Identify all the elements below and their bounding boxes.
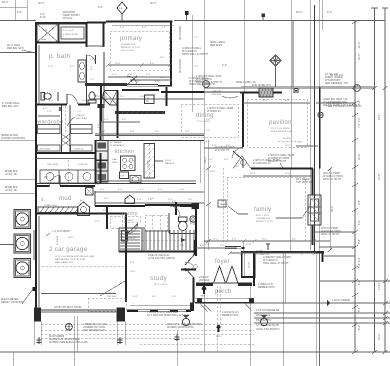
svg-text:26'-2": 26'-2" — [331, 206, 334, 212]
svg-text:8'-11": 8'-11" — [40, 16, 46, 19]
svg-text:CLOSET LOCATION): CLOSET LOCATION) — [1, 137, 25, 140]
svg-text:12 X 4000 PSI TEMP WALL 12 NO: 12 X 4000 PSI TEMP WALL 12 NO 40 — [147, 314, 190, 317]
svg-text:10'-3": 10'-3" — [358, 42, 361, 48]
svg-text:21'-8": 21'-8" — [378, 174, 381, 180]
svg-text:18'-9": 18'-9" — [262, 100, 268, 102]
svg-text:30'-0": 30'-0" — [150, 2, 156, 5]
room label pdr — [190, 221, 198, 226]
primary top wall inner line — [112, 24, 174, 26]
svg-text:FROM 12' TO 13': FROM 12' TO 13' — [256, 221, 274, 223]
svg-text:PAD: PAD — [216, 335, 221, 338]
primary bottom wall windows — [127, 85, 172, 87]
svg-text:TRNS WALL 47 HD HT: TRNS WALL 47 HD HT — [182, 53, 208, 56]
svg-text:PEBBLE CHIC: PEBBLE CHIC — [222, 314, 239, 317]
stair top wall — [119, 228, 196, 234]
svg-text:2'-0": 2'-0" — [222, 64, 227, 67]
anchor symbol x177 — [175, 334, 180, 341]
study sub text — [154, 284, 168, 286]
dining dim — [204, 145, 243, 148]
right boundary line x385 — [382, 8, 388, 352]
oven note right — [323, 98, 357, 107]
svg-text:6'-0": 6'-0" — [158, 189, 163, 191]
anchor symbol x38 — [37, 337, 42, 344]
apron dashed line 2 — [41, 334, 254, 338]
top diamond symbol — [117, 2, 127, 21]
section marker left — [182, 315, 189, 326]
vertical grid line G x319.5 — [319, 0, 321, 366]
top right note — [330, 74, 344, 77]
svg-text:2ND FLR.: 2ND FLR. — [107, 296, 117, 298]
svg-text:16 SHLF: 16 SHLF — [125, 220, 134, 222]
svg-text:4'-0": 4'-0" — [95, 184, 100, 186]
garage ceiling dashed — [42, 265, 124, 267]
svg-text:7'-4": 7'-4" — [194, 66, 199, 68]
svg-text:+ 4" LOT DROP: + 4" LOT DROP — [52, 230, 70, 233]
svg-text:4'-0": 4'-0" — [292, 239, 297, 241]
svg-text:RM: RM — [146, 101, 150, 103]
svg-text:50" VA. LVL: 50" VA. LVL — [330, 74, 344, 77]
foyer note right — [258, 283, 275, 289]
apron dashed line 1 — [34, 322, 254, 345]
svg-text:SAT FEELING TYPE "A" WTRL: SAT FEELING TYPE "A" WTRL — [55, 258, 87, 261]
svg-text:4'-0": 4'-0" — [180, 189, 185, 191]
svg-text:5'-8": 5'-8" — [103, 210, 108, 212]
stair up arrow — [125, 238, 186, 242]
svg-text:9'-0": 9'-0" — [155, 131, 160, 133]
svg-text:6'-8": 6'-8" — [106, 95, 108, 100]
svg-text:4'-0": 4'-0" — [172, 296, 177, 298]
stair note — [148, 254, 175, 260]
bath dimension text — [48, 66, 75, 68]
family top dim row — [243, 173, 312, 176]
right rotated dimension text 9-6 — [358, 200, 361, 205]
svg-text:W 40-22: W 40-22 — [63, 17, 73, 20]
svg-text:4'-1": 4'-1" — [91, 65, 93, 70]
pavilion east wall — [318, 87, 324, 169]
hall west wall — [100, 86, 102, 121]
room label porch — [215, 289, 232, 295]
svg-text:VERIFY LOCATION: VERIFY LOCATION — [1, 301, 23, 304]
family ceiling dashed — [227, 177, 305, 241]
room label p.bath — [49, 53, 71, 60]
vertical grid line D x249 — [245, 0, 251, 366]
pavilion east note — [327, 102, 362, 108]
fireplace note — [296, 178, 313, 184]
right rotated dimension text 7-2 — [358, 117, 361, 128]
svg-text:TRNL WALL 47 HD HT: TRNL WALL 47 HD HT — [263, 262, 289, 265]
family bottom dim row — [204, 239, 330, 247]
stair mid rail — [142, 229, 144, 251]
right rotated dimension text 6-2 — [358, 325, 361, 330]
hall dim row y65 — [106, 63, 172, 67]
svg-text:8'-0": 8'-0" — [285, 100, 290, 102]
pavilion marker box — [294, 89, 298, 93]
svg-text:(40 BDRMS): (40 BDRMS) — [179, 59, 182, 73]
laundry counter — [40, 170, 97, 183]
left edge line y52 — [0, 52, 36, 54]
svg-text:26'-0" x 18'-0": 26'-0" x 18'-0" — [256, 215, 270, 217]
bath toilet — [41, 93, 51, 101]
closet block bottom wall — [36, 42, 87, 44]
family top wall — [251, 168, 313, 170]
wc bay pentagon — [233, 156, 251, 169]
svg-text:4'-6": 4'-6" — [358, 239, 361, 244]
study left dim — [130, 262, 136, 273]
left leader text bond pnl1 — [5, 170, 18, 176]
svg-text:17'-2": 17'-2" — [213, 239, 219, 241]
entry door swing left — [214, 266, 226, 283]
right of primary notes 3 — [179, 26, 182, 73]
svg-text:COFFER CLG.: COFFER CLG. — [256, 218, 271, 220]
svg-text:10'-0": 10'-0" — [95, 96, 101, 98]
below kitchen dim row 1 — [95, 189, 204, 192]
garage interior dim — [95, 221, 100, 223]
svg-text:LFB CB125: LFB CB125 — [39, 149, 51, 151]
svg-text:WALLS AND CLG.: WALLS AND CLG. — [55, 261, 74, 264]
left wall inner line — [38, 45, 40, 308]
mud top wall — [36, 186, 95, 195]
hall vertical dim — [106, 95, 108, 100]
svg-text:12" SQ. SVELTE AB: 12" SQ. SVELTE AB — [256, 324, 279, 327]
family width dim line — [328, 167, 335, 252]
apron dashed y344 — [140, 343, 254, 345]
bottom center note 2 — [167, 323, 202, 329]
svg-text:LINE UP: LINE UP — [76, 115, 85, 117]
pavilion sub text — [271, 128, 293, 133]
garage sub text — [55, 256, 95, 264]
right chain rotated 10-3 — [358, 42, 361, 48]
pantry left wall — [106, 205, 108, 229]
dining door arc — [232, 147, 243, 160]
laundry right wall — [100, 153, 102, 183]
house left wall — [35, 23, 37, 213]
apron note 2 — [49, 335, 88, 344]
top dim texts left — [98, 2, 156, 9]
svg-text:LOOK UP: LOOK UP — [74, 149, 84, 151]
fireplace — [308, 195, 321, 225]
svg-text:2'-8": 2'-8" — [206, 119, 211, 121]
svg-text:7'-2" 1'-0": 7'-2" 1'-0" — [358, 117, 361, 128]
vertical grid line B — [26, 0, 28, 21]
AC unit 3 — [14, 259, 31, 278]
primary lower dim row — [108, 74, 170, 79]
hall east wall — [117, 90, 119, 138]
pavilion circle symbol right — [354, 85, 361, 92]
stair bottom wall — [119, 251, 196, 253]
bar leader — [221, 201, 248, 214]
mid left notes — [212, 91, 238, 98]
closet note — [256, 250, 269, 256]
svg-text:WALL 47 HD HT: WALL 47 HD HT — [321, 233, 340, 236]
wardrobe right wall — [100, 105, 102, 154]
svg-text:2'-0": 2'-0" — [160, 77, 165, 79]
right dimension chain x355 — [352, 20, 358, 354]
svg-text:foyer: foyer — [215, 259, 230, 265]
svg-text:p. bath: p. bath — [49, 53, 71, 60]
svg-text:4'-0": 4'-0" — [148, 199, 153, 201]
kitchen range — [121, 156, 136, 171]
svg-text:COLS. PS2 ZKAPTU: COLS. PS2 ZKAPTU — [256, 328, 280, 331]
svg-text:DISP.: DISP. — [112, 162, 118, 164]
far right ticks — [372, 86, 388, 354]
svg-text:7'-2": 7'-2" — [298, 142, 303, 144]
svg-text:31'-1": 31'-1" — [378, 114, 381, 120]
powder wall — [125, 195, 199, 233]
svg-text:48" RANGE: 48" RANGE — [110, 141, 122, 144]
svg-text:16'-0": 16'-0" — [210, 171, 216, 173]
entry wall right — [238, 283, 252, 287]
svg-text:3'-0": 3'-0" — [188, 199, 193, 201]
core door arc pantry — [126, 224, 138, 235]
svg-text:2'-6": 2'-6" — [180, 245, 185, 247]
svg-text:PER BAL.SCH: PER BAL.SCH — [7, 47, 24, 50]
right of primary notes 2 — [189, 77, 215, 86]
svg-text:LIN: LIN — [146, 98, 150, 100]
svg-text:12'-6": 12'-6" — [358, 154, 361, 160]
grade line y318 — [254, 317, 390, 319]
svg-text:4'-0": 4'-0" — [146, 74, 151, 76]
svg-text:10'-0": 10'-0" — [296, 11, 302, 14]
family sub text — [256, 215, 274, 223]
right rotated dim 6-4 — [358, 220, 361, 225]
svg-text:6'-0": 6'-0" — [70, 66, 75, 68]
svg-text:TRNS WALL 47 HD HT: TRNS WALL 47 HD HT — [196, 81, 222, 84]
svg-text:4 PS NO SEDGE AB: 4 PS NO SEDGE AB — [256, 309, 280, 312]
study ne corner texts — [180, 245, 210, 282]
hall top wall segment — [122, 89, 159, 91]
svg-text:9'-6": 9'-6" — [358, 200, 361, 205]
wardrobe builtins lower — [38, 145, 93, 151]
porch post right — [249, 298, 254, 303]
apron circle symbol — [66, 323, 73, 330]
garage right wall — [122, 213, 128, 302]
primary sub text — [121, 44, 141, 52]
room label wardrobe — [36, 120, 64, 126]
right rotated dimension text 17-10 — [378, 282, 381, 290]
svg-text:4'-6": 4'-6" — [137, 199, 142, 201]
grill note — [236, 81, 272, 87]
grade right ticks — [383, 301, 388, 325]
svg-text:3'-0": 3'-0" — [130, 262, 135, 264]
foyer west wall — [195, 205, 197, 256]
svg-text:4'-0": 4'-0" — [112, 74, 117, 76]
closet east wall — [253, 253, 255, 287]
svg-text:PAD: PAD — [201, 294, 206, 297]
garage sect door lines — [41, 310, 116, 312]
svg-text:14'-2": 14'-2" — [378, 334, 381, 340]
left leader text wall per balc — [7, 44, 36, 53]
svg-text:16'-0": 16'-0" — [285, 145, 291, 147]
svg-text:dining: dining — [196, 113, 214, 119]
svg-text:7'-0": 7'-0" — [47, 111, 52, 113]
svg-text:16'X8' O/H SECT DOOR: 16'X8' O/H SECT DOOR — [54, 306, 82, 309]
grade line y313 — [254, 312, 390, 314]
svg-text:12 SQ. VE.: 12 SQ. VE. — [5, 173, 18, 176]
svg-text:pavilion: pavilion — [269, 120, 292, 126]
wardrobe center dashed — [61, 105, 70, 153]
svg-text:6'-0": 6'-0" — [142, 27, 147, 29]
laundry machine circles — [46, 173, 91, 181]
kitchen wall text — [110, 141, 125, 147]
grill hatch box — [259, 88, 273, 97]
right rotated dim 14-2 — [378, 334, 381, 340]
left leader text bond pnl2 — [5, 186, 18, 192]
entry wall left — [196, 283, 213, 287]
wall note below — [263, 256, 291, 265]
garage door text — [54, 306, 82, 309]
stair treads left — [120, 231, 140, 249]
linen box — [59, 24, 86, 42]
svg-text:ANTERO SEE ELEVLN DTL A-MO: ANTERO SEE ELEVLN DTL A-MO — [49, 341, 88, 344]
AC unit 2 — [14, 234, 31, 253]
hall note mid-top2 — [222, 64, 227, 67]
pavilion east dim — [296, 142, 318, 146]
svg-text:CLOS.: CLOS. — [249, 261, 251, 268]
svg-text:20'-0": 20'-0" — [68, 237, 74, 239]
svg-text:16'-3": 16'-3" — [358, 54, 361, 60]
monitor supply note — [63, 11, 81, 20]
right chain ticks extra — [352, 113, 358, 309]
room label 2 car garage — [49, 246, 88, 253]
svg-text:6'-0": 6'-0" — [220, 245, 225, 247]
right notes 4070 b — [321, 227, 341, 236]
room label mud — [42, 196, 72, 202]
hall dim right of primary — [192, 15, 198, 112]
svg-text:CAB: CAB — [112, 158, 117, 161]
dining sub text — [197, 121, 211, 123]
svg-text:5'-2": 5'-2" — [168, 199, 173, 201]
kitchen counter inner line — [95, 135, 204, 137]
svg-text:6'-0": 6'-0" — [155, 81, 160, 83]
pavilion ceiling dashed — [247, 99, 307, 147]
svg-text:12'-0" CLG. FROM: 12'-0" CLG. FROM — [271, 128, 290, 130]
svg-text:6'-0": 6'-0" — [152, 296, 157, 298]
closet box — [242, 253, 255, 278]
powder toilet — [179, 217, 188, 231]
powder sink — [190, 216, 196, 222]
kitchen dim row — [95, 131, 204, 134]
bottom stub x315 — [317, 253, 390, 366]
svg-text:5'-0": 5'-0" — [224, 159, 229, 161]
svg-text:40'-2": 40'-2" — [38, 2, 44, 5]
hall dim row y121 — [101, 119, 140, 122]
top texts above closet — [38, 2, 46, 19]
wc note top — [215, 146, 235, 152]
svg-text:4'-0": 4'-0" — [120, 27, 125, 29]
top right box outline — [292, 21, 294, 88]
garage left wall — [35, 213, 37, 311]
svg-text:40'-2": 40'-2" — [2, 1, 8, 4]
primary closet rods — [130, 80, 172, 83]
pavilion notes left — [196, 75, 234, 113]
vertical grid line H x322 — [321, 0, 323, 30]
svg-text:5'-0": 5'-0" — [126, 198, 131, 200]
wardrobe top wall — [36, 104, 105, 108]
svg-text:LFB CB125: LFB CB125 — [47, 164, 59, 166]
top left tiny texts — [2, 1, 22, 14]
study se corner wall — [181, 269, 196, 271]
svg-text:5'-4": 5'-4" — [140, 96, 145, 98]
svg-text:15'-6": 15'-6" — [285, 173, 291, 175]
svg-text:5'-2": 5'-2" — [98, 6, 103, 9]
svg-text:W/C: W/C — [42, 196, 44, 201]
hall dim row — [90, 96, 135, 99]
svg-text:7'-2": 7'-2" — [77, 111, 82, 113]
right rotated dim 4-6 — [358, 239, 361, 244]
nook dashes — [222, 168, 224, 242]
bottom arrow symbol — [216, 325, 221, 338]
lot drop note — [46, 230, 74, 239]
hall door arcs bath — [87, 55, 96, 64]
powder door arc — [170, 206, 180, 216]
primary-kitchen divider wall — [115, 111, 165, 114]
svg-text:WALL 47 HD HT: WALL 47 HD HT — [323, 178, 342, 181]
svg-text:W 30600 FX: W 30600 FX — [207, 110, 221, 113]
svg-text:2'-0": 2'-0" — [95, 221, 100, 223]
family right wall — [312, 169, 314, 246]
svg-text:5'-4": 5'-4" — [104, 119, 109, 121]
bottom stub x74 — [74, 316, 77, 366]
left edge line y187 — [0, 178, 35, 180]
svg-text:17'-10": 17'-10" — [378, 282, 381, 290]
svg-text:kitchen: kitchen — [115, 149, 135, 155]
svg-text:PEBBLE CHIC: PEBBLE CHIC — [258, 286, 275, 289]
svg-text:W 47 HD HT: W 47 HD HT — [215, 149, 230, 152]
garage dashed line of 2nd flr — [88, 281, 126, 311]
kitchen fridge column — [96, 141, 108, 183]
svg-text:SEAT: SEAT — [41, 38, 47, 41]
linen box — [145, 95, 155, 104]
family bottom wall — [225, 246, 241, 248]
svg-text:porch: porch — [215, 289, 232, 295]
p.bath right wall — [86, 23, 88, 104]
svg-text:W 3-60X100 FX: W 3-60X100 FX — [253, 162, 271, 165]
right tick y103 — [316, 101, 358, 105]
shelf note right — [325, 73, 349, 85]
svg-text:WIR: WIR — [43, 30, 48, 32]
svg-text:study: study — [150, 275, 167, 282]
svg-text:15'-6": 15'-6" — [246, 244, 252, 246]
svg-text:5'-2" x 6'-2": 5'-2" x 6'-2" — [63, 30, 74, 32]
pavilion dim row — [243, 100, 310, 103]
bottom boundary line y352 — [0, 351, 390, 353]
garage door header line — [41, 293, 116, 295]
svg-text:6'-2": 6'-2" — [358, 325, 361, 330]
garage door jamb right — [117, 308, 126, 322]
pavilion notes lower — [253, 159, 280, 165]
pavilion top line — [204, 86, 375, 88]
svg-text:2'-2": 2'-2" — [162, 27, 167, 29]
svg-text:ROOF FIN FLR. LINE: ROOF FIN FLR. LINE — [271, 131, 293, 133]
bottom center note 1 — [147, 311, 190, 317]
study dim rows — [133, 296, 177, 298]
family leader — [276, 206, 310, 218]
svg-text:4'-0": 4'-0" — [205, 244, 210, 246]
svg-text:25'-2": 25'-2" — [262, 239, 268, 241]
grade line y323 — [254, 322, 390, 324]
svg-text:BAR: BAR — [221, 203, 226, 206]
svg-text:400 STL TURN 4 QVT. ELEVN: 400 STL TURN 4 QVT. ELEVN — [323, 104, 357, 107]
core top wall — [95, 205, 199, 206]
top boundary line — [0, 20, 385, 22]
right notes 4070 a — [323, 172, 343, 181]
dining ceiling dashed — [181, 104, 238, 137]
anchor symbol x123 — [118, 337, 123, 344]
mud closet pentagon — [78, 199, 90, 216]
svg-text:MAKEUP: MAKEUP — [165, 162, 175, 165]
kitchen island — [144, 144, 155, 179]
room label kitchen — [115, 149, 135, 155]
